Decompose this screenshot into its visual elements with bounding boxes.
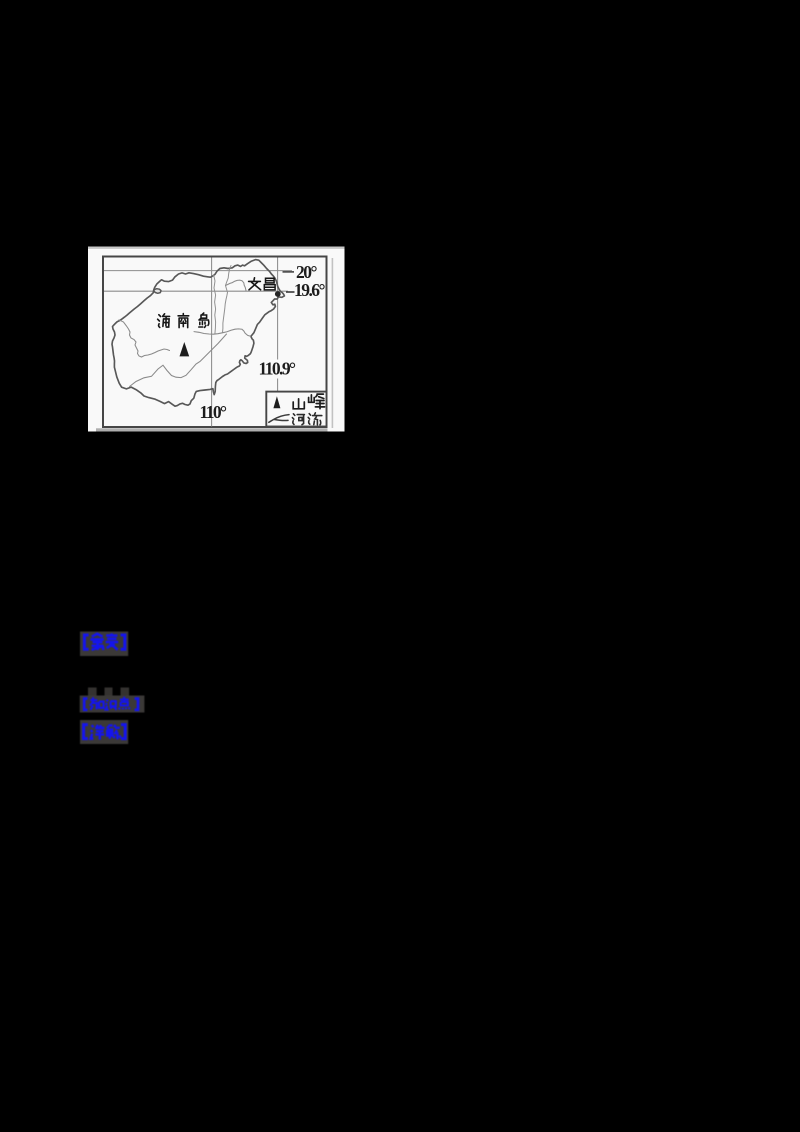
analysis tag char xiang <box>91 725 105 740</box>
legend box <box>266 392 326 427</box>
knowledge tag bracket close <box>135 699 138 710</box>
ellipsis tabs above knowledge tag <box>88 688 97 696</box>
map frame border <box>103 257 327 428</box>
river Wanquan east <box>194 329 251 336</box>
river south <box>130 334 227 387</box>
island coastline of Hainan <box>112 260 284 407</box>
answer tag char an <box>106 633 119 649</box>
grid line 110.9E vertical lower segment <box>277 379 279 392</box>
answer tag bracket open <box>84 635 88 649</box>
grid line 20N <box>104 270 292 272</box>
answer tag bracket close <box>121 635 125 649</box>
grid tick before 20 label <box>283 271 295 273</box>
river Changhua west <box>119 320 170 357</box>
analysis tag bracket close <box>121 725 125 739</box>
legend river text (liu) <box>308 413 322 425</box>
Wenchang label (wen) <box>249 278 261 290</box>
label 19.6 degrees <box>286 291 295 293</box>
map bottom scan band <box>96 428 328 431</box>
knowledge tag char dian <box>119 697 130 710</box>
analysis tag bracket open <box>84 725 88 739</box>
answer tag char da <box>90 634 103 650</box>
river Nandu east branch <box>226 280 246 291</box>
Hainan Island label (hai) <box>158 314 170 328</box>
knowledge tag highlight box <box>80 696 145 713</box>
mountain peak triangle <box>180 342 190 356</box>
analysis tag char jie <box>107 725 121 740</box>
knowledge tag bracket open <box>84 699 87 710</box>
river Nandu main <box>223 266 232 333</box>
knowledge tag char zhi <box>90 697 104 709</box>
legend peak triangle <box>273 396 280 408</box>
Hainan Island label (dao) <box>199 313 209 327</box>
Wenchang city dot <box>275 291 281 297</box>
legend peak text (feng) <box>309 394 325 409</box>
Wenchang label (chang) <box>264 278 275 290</box>
grid line 19.6N <box>104 290 288 292</box>
legend river text (he) <box>292 414 304 425</box>
grid line 110E vertical <box>211 258 213 427</box>
answer tag highlight box <box>80 632 128 657</box>
river near 110E line <box>214 275 216 334</box>
scan shadow right of frame <box>332 258 334 428</box>
knowledge tag char shi <box>106 700 117 710</box>
analysis tag highlight box <box>80 720 128 744</box>
grid line 110.9E vertical <box>277 258 279 360</box>
legend river symbol <box>269 415 289 423</box>
legend peak text (shan) <box>293 399 304 409</box>
map panel top scan stripe <box>88 247 345 249</box>
map panel white background <box>88 247 345 432</box>
Hainan Island label (nan) <box>178 314 189 328</box>
Yangpu hook loop <box>154 289 161 294</box>
